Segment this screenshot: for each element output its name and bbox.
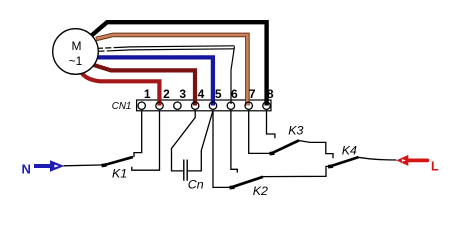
capacitor Cn plates — [183, 160, 185, 181]
svg-text:K4: K4 — [342, 143, 357, 157]
svg-text:3: 3 — [179, 87, 186, 101]
wire red motor to pin 2 — [81, 71, 160, 106]
wire K2 out to K4 pivot — [263, 166, 331, 176]
wire N to K1 — [64, 164, 106, 167]
switch K4 blade — [328, 164, 333, 168]
wire pin2 to K1 lower contact — [132, 110, 160, 170]
wire pin1 to K1 upper contact — [134, 110, 142, 157]
motor M1 circle — [53, 29, 99, 75]
connector CN1 body — [137, 100, 271, 111]
pin 7 — [245, 102, 252, 109]
wire pin5 to capacitor right — [188, 111, 213, 171]
svg-text:5: 5 — [215, 87, 222, 101]
terminal N arrow — [34, 164, 52, 168]
wire pin7 to K3 pivot — [249, 110, 271, 153]
svg-text:4: 4 — [198, 87, 205, 101]
switch K3 blade — [270, 151, 275, 155]
pin 8 — [263, 102, 270, 109]
wire black motor to pin 8 — [92, 22, 267, 105]
svg-text:~1: ~1 — [69, 54, 83, 68]
pin 2 — [156, 102, 163, 109]
pin 5 — [209, 102, 216, 109]
pin 1 — [138, 102, 145, 109]
svg-text:7: 7 — [249, 87, 256, 101]
wire white (double line) motor to pin 6 — [99, 46, 235, 49]
wire pin5 to K2 pivot — [213, 110, 231, 187]
switch K2 blade — [230, 185, 235, 189]
switch K1 blade — [102, 163, 107, 167]
wire pin4 to capacitor left — [172, 110, 196, 171]
svg-text:M: M — [72, 39, 82, 53]
svg-text:8: 8 — [267, 87, 274, 101]
svg-text:1: 1 — [144, 87, 151, 101]
wire K3 out to K4 upper contact — [299, 141, 334, 159]
wire pin6 to K2 upper contact — [231, 110, 237, 172]
svg-text:CN1: CN1 — [112, 101, 132, 112]
wire orange motor to pin 7 — [96, 35, 247, 106]
svg-text:K1: K1 — [112, 166, 127, 180]
svg-text:2: 2 — [163, 87, 170, 101]
svg-text:6: 6 — [231, 87, 238, 101]
pin 3 — [174, 102, 181, 109]
wire maroon motor to pin 4 — [91, 64, 196, 106]
wire blue motor to pin 5 — [96, 57, 213, 105]
wire pin8 to K3 upper contact — [267, 110, 275, 138]
wire K4 to terminal L — [358, 157, 396, 160]
pin 6 — [227, 102, 234, 109]
svg-text:Cn: Cn — [188, 178, 204, 192]
svg-text:N: N — [22, 162, 31, 177]
svg-text:K2: K2 — [253, 184, 268, 198]
svg-text:K3: K3 — [288, 124, 303, 138]
terminal L arrow — [396, 155, 408, 166]
pin 4 — [192, 102, 199, 109]
svg-text:L: L — [431, 160, 439, 174]
